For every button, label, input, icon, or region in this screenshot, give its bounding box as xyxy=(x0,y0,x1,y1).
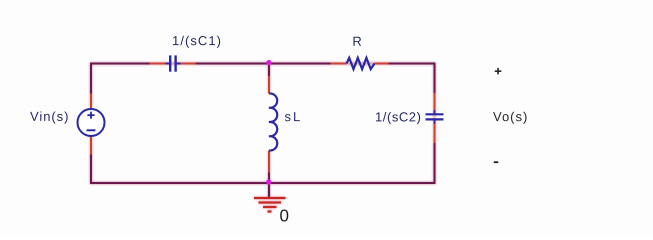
pin lead source top xyxy=(90,94,92,110)
ground symbol xyxy=(254,198,286,212)
svg-text:1/(sC2): 1/(sC2) xyxy=(375,109,421,124)
pin lead C1 right xyxy=(177,63,196,65)
junction node bottom xyxy=(266,179,271,184)
junction node top xyxy=(266,60,271,65)
wire inductor bottom stub xyxy=(268,172,270,183)
capacitor C1 stubs xyxy=(166,63,181,65)
svg-text:Vin(s): Vin(s) xyxy=(30,109,69,124)
wire inductor top stub xyxy=(268,64,270,77)
svg-text:Vo(s): Vo(s) xyxy=(493,109,528,124)
pin lead source bottom xyxy=(90,136,92,155)
wire left vertical lower xyxy=(90,154,92,184)
pin lead C2 bottom xyxy=(434,121,436,144)
label plus output xyxy=(495,68,502,74)
svg-text:0: 0 xyxy=(280,206,289,225)
pin lead C2 top xyxy=(434,93,436,114)
pin lead C1 left xyxy=(150,63,170,65)
capacitor C1 left plate xyxy=(169,55,171,71)
wire top right horizontal xyxy=(388,63,435,65)
pin lead R left xyxy=(331,63,347,65)
capacitor C2 top plate xyxy=(426,113,444,115)
label minus output xyxy=(494,161,499,163)
pin lead L top xyxy=(268,76,270,94)
wire right vertical lower xyxy=(434,143,436,185)
svg-text:1/(sC1): 1/(sC1) xyxy=(172,33,222,48)
pin lead L bottom xyxy=(268,151,270,173)
svg-text:sL: sL xyxy=(284,109,302,124)
voltage source V1 circle xyxy=(78,109,105,136)
wire left vertical upper xyxy=(90,63,92,95)
svg-text:R: R xyxy=(352,34,361,49)
capacitor C2 bottom plate xyxy=(426,118,444,120)
pin lead R right xyxy=(375,63,389,65)
capacitor C2 stubs xyxy=(434,110,436,124)
wire right vertical upper xyxy=(434,63,436,94)
wire top middle horizontal xyxy=(195,63,331,65)
capacitor C1 right plate xyxy=(174,55,176,71)
voltage source plus sign xyxy=(87,112,94,119)
wire bottom horizontal xyxy=(90,182,436,184)
voltage source minus sign xyxy=(87,129,96,131)
wire top left horizontal xyxy=(91,63,150,65)
resistor R zigzag xyxy=(347,58,375,69)
wire ground stem xyxy=(268,183,270,198)
inductor sL arcs xyxy=(269,93,277,150)
